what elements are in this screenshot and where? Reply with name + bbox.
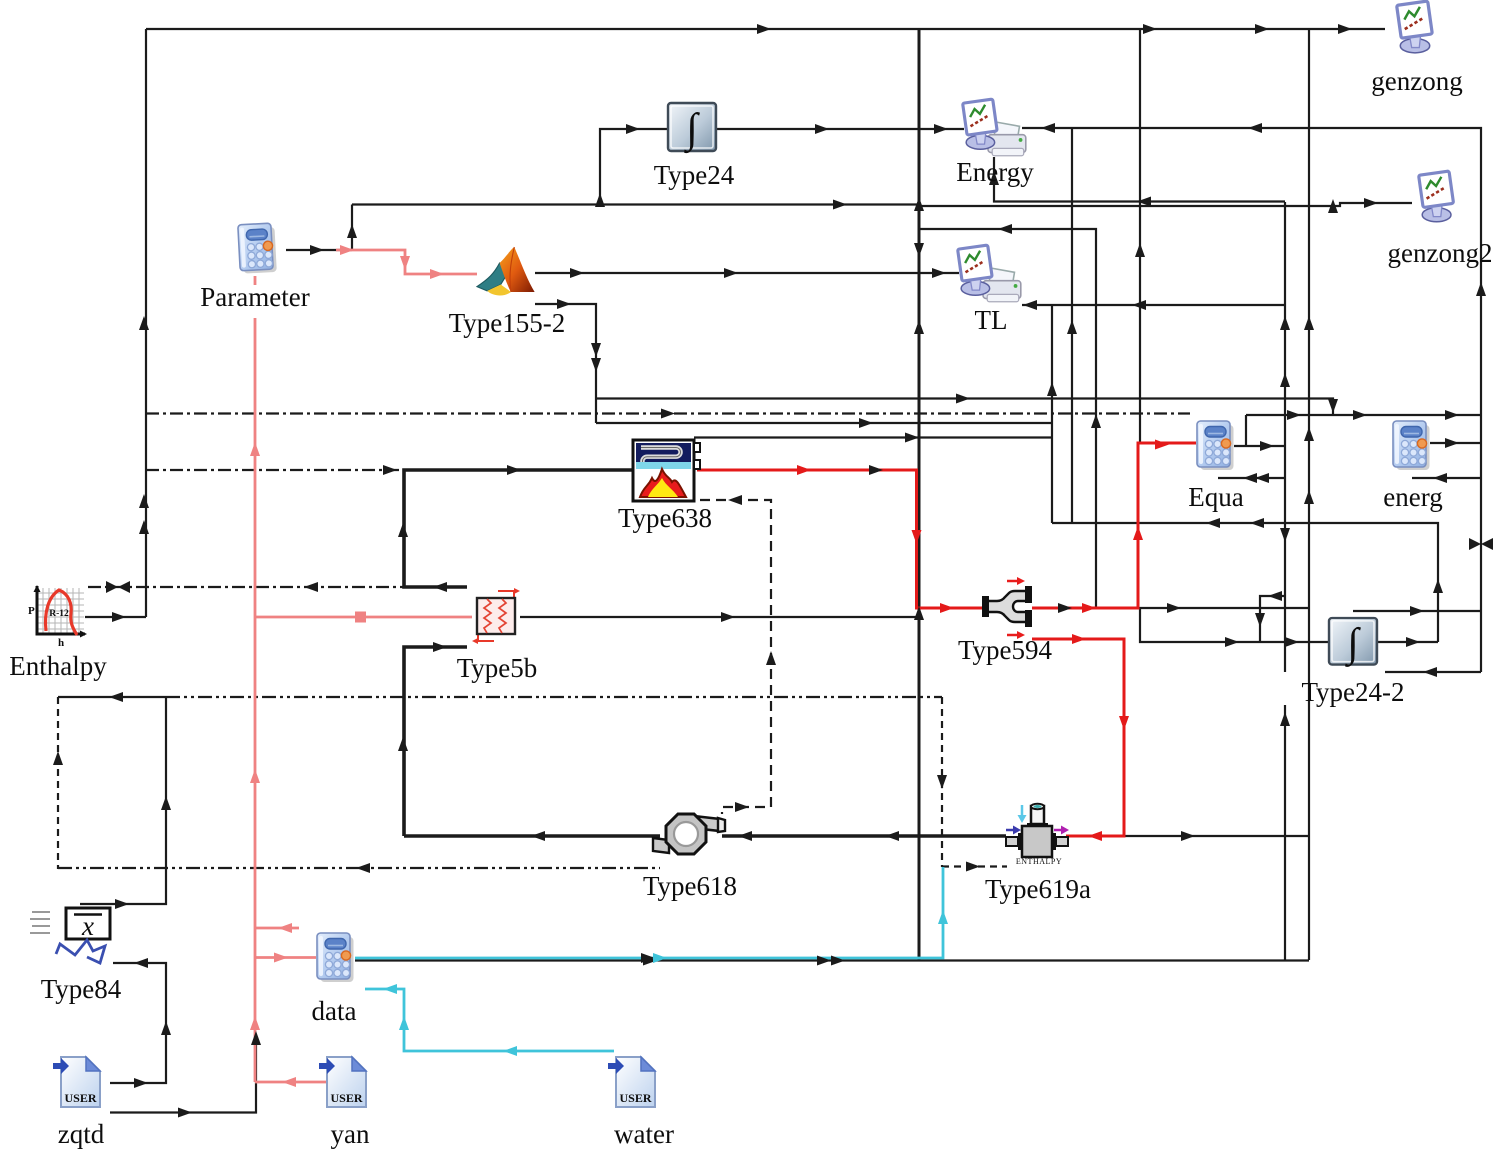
wire left frame vertical: [145, 29, 147, 617]
pump Type618: [653, 814, 725, 854]
wire dashdot y=697: [166, 696, 942, 698]
wire dashdot Enthalpy y=587: [88, 586, 404, 588]
wire vertical x1072: [1071, 128, 1073, 523]
svg-text:Type638: Type638: [618, 503, 712, 533]
wire pink branch to Type5b: [255, 616, 472, 619]
svg-text:Equa: Equa: [1188, 482, 1243, 512]
heat exchanger Type5b: [472, 588, 520, 644]
wire Equa bottom: [1218, 477, 1285, 479]
arrow into Type24: [626, 124, 640, 134]
plotter genzong: [1397, 1, 1433, 53]
wire Parameter output: [286, 249, 352, 251]
svg-text:ENTHALPY: ENTHALPY: [1016, 857, 1062, 866]
wire pink from yan: [255, 1081, 327, 1084]
red arrows Type594 to Equa: [1082, 603, 1096, 613]
arrows Type24 to Energy: [815, 124, 829, 134]
wire energ right output: [1430, 442, 1481, 444]
arrows on top frame: [757, 24, 771, 34]
arrows y398: [956, 394, 970, 404]
wire y=398 long horizontal: [596, 399, 1333, 416]
arrows x166 upper: [161, 796, 171, 810]
arrows y204: [833, 200, 847, 210]
printer-plotter Energy: [963, 99, 1026, 156]
wire thick loop to Type5b bottom: [404, 647, 467, 836]
arrow Type24-2 output: [1406, 637, 1420, 647]
arrows thick loop top: [398, 523, 408, 537]
arrows Equa bottom: [1243, 473, 1257, 483]
wire pink Parameter to Type155-2: [336, 250, 477, 274]
furnace Type638: [633, 440, 700, 501]
wire jog x1260: [1260, 596, 1285, 642]
arrows Type594 output black: [1058, 603, 1072, 613]
wire top frame to genzong: [146, 28, 1385, 30]
wire Type155-2 second output: [535, 304, 596, 423]
wire vertical x1285 upper: [1284, 202, 1286, 672]
tee Type594: [982, 577, 1032, 639]
black arrows on cyan bus: [641, 953, 655, 963]
wire vertical x1309: [1308, 29, 1310, 960]
user file zqtd: [53, 1057, 100, 1107]
wire dashdot into Type638 left: [146, 469, 400, 471]
arrows vertical x1285: [1280, 316, 1290, 330]
arrows pump left thick: [531, 831, 545, 841]
arrow dashed x58: [53, 751, 63, 765]
calculator Equa: [1197, 421, 1234, 470]
wire y=611 to x1481: [1353, 610, 1481, 612]
arrows Type155-2 second output: [557, 299, 571, 309]
svg-text:genzong: genzong: [1371, 66, 1462, 96]
red arrows Type638 line: [797, 465, 811, 475]
cyan arrows data bus: [653, 953, 667, 963]
pink elbow arrows: [278, 923, 292, 933]
svg-text:energ: energ: [1383, 482, 1442, 512]
wire Type638 top output y=437: [694, 436, 1052, 438]
svg-text:genzong2: genzong2: [1388, 238, 1493, 268]
user file yan: [319, 1057, 366, 1107]
arrows into energ: [1287, 410, 1301, 420]
pink arrows Parameter line: [340, 245, 354, 255]
wire zqtd bottom output: [110, 1037, 256, 1113]
arrow dashdot y587: [304, 582, 318, 592]
svg-text:Type5b: Type5b: [457, 653, 538, 683]
wire pump left thick: [404, 834, 660, 838]
wire dashed vertical x942: [941, 697, 943, 867]
wire Parameter output vertical branch: [351, 205, 353, 251]
matlab Type155-2: [477, 247, 535, 295]
wire into Type84 right: [110, 963, 166, 1083]
wire dashdot y=868: [58, 867, 660, 869]
arrows y206 genzong2: [1328, 199, 1338, 213]
wire Energy bottom feed: [994, 157, 1285, 202]
wire bottom bus y=960: [355, 959, 1309, 961]
wire Type594 output black: [1032, 607, 1309, 609]
wire y=423 horizontal: [596, 422, 1052, 424]
wire Type5b output to x919: [520, 616, 917, 618]
wire y=523 horizontal: [1052, 523, 1438, 642]
calculator data: [317, 933, 354, 982]
wire Equa output: [1234, 445, 1285, 447]
arrow dashdot y413: [661, 409, 675, 419]
printer-plotter TL: [958, 245, 1021, 302]
arrows into Type24-2: [1225, 637, 1239, 647]
arrows dashed x942: [937, 775, 947, 789]
svg-text:Type618: Type618: [643, 871, 737, 901]
arrows Energy bottom feed: [989, 171, 999, 185]
arrow energ bottom: [1433, 473, 1447, 483]
wire y=697 solid left: [58, 696, 166, 698]
arrow thick loop bottom: [398, 737, 408, 751]
wire Type24 to Energy: [716, 128, 964, 130]
averager Type84: [30, 908, 110, 963]
wire red Type594 bottom to Type619a: [1032, 639, 1124, 836]
wire horizontal y=206: [920, 203, 1412, 206]
arrows bottom bus y960: [643, 956, 657, 966]
arrow vertical x1140: [1135, 243, 1145, 257]
arrows Type84 loop: [134, 958, 148, 968]
pink square marker on Type5b branch: [355, 612, 366, 623]
arrow Equa output: [1260, 441, 1274, 451]
wire horizontal y=229 into vertical x1096: [920, 229, 1096, 608]
calculator energ: [1393, 421, 1430, 470]
svg-text:Type24: Type24: [654, 160, 735, 190]
wire dashed Type638 bottom to pump: [700, 500, 771, 814]
arrows Type155-2 to TL: [570, 268, 584, 278]
arrow Type638 top output: [905, 433, 919, 443]
arrow y423: [859, 418, 873, 428]
wire horizontal y=204 to node x919: [352, 203, 919, 205]
integrator Type24: [668, 103, 716, 154]
wire vertical x1140: [1139, 29, 1141, 443]
wire dashed vertical x58: [57, 697, 59, 869]
svg-text:h: h: [58, 637, 64, 649]
arrows vertical x1309: [1304, 316, 1314, 330]
arrows jog x1260: [1268, 591, 1282, 601]
svg-text:yan: yan: [331, 1119, 370, 1149]
arrows on left frame vertical: [139, 316, 149, 330]
wire Type619a right to x1309: [1066, 835, 1309, 837]
wire pump right thick: [722, 834, 1006, 838]
tee valve Type619a: [1006, 804, 1069, 866]
integrator Type24-2: [1329, 618, 1377, 668]
wire vertical x166 upper: [80, 697, 166, 904]
wire Equa out to energ branch vertical: [1245, 415, 1247, 446]
cyan arrows water loop: [383, 984, 397, 994]
arrows zqtd bottom: [178, 1108, 192, 1118]
arrow energ right output: [1445, 438, 1459, 448]
pink arrows main vertical: [250, 442, 260, 456]
svg-text:Parameter: Parameter: [200, 282, 309, 312]
bowtie Enthalpy dashdot: [106, 581, 130, 593]
svg-text:water: water: [614, 1119, 674, 1149]
arrow red line black overlay: [869, 465, 883, 475]
svg-text:data: data: [312, 996, 357, 1026]
arrow y697 left: [109, 692, 123, 702]
svg-text:Enthalpy: Enthalpy: [9, 651, 107, 681]
wire dashdot y=413 long: [146, 412, 1190, 414]
arrows trunk x919: [914, 243, 924, 257]
wire TL right feed y=305: [1022, 304, 1285, 306]
wire dashed into Type619a bottom: [942, 865, 1007, 867]
wire Type24-2 output: [1377, 641, 1438, 643]
svg-text:Type155-2: Type155-2: [449, 308, 566, 338]
arrow Parameter out: [310, 245, 324, 255]
wire vertical x1285 lower: [1284, 705, 1286, 960]
wire into Type24: [600, 129, 668, 204]
arrow dashdot into Type638: [383, 465, 397, 475]
wire into Type24-2: [1140, 608, 1329, 642]
wire into energ y=415: [1246, 414, 1481, 416]
wire red Type638 output: [697, 470, 982, 608]
svg-text:zqtd: zqtd: [58, 1119, 105, 1149]
arrows y229 x1096: [998, 224, 1012, 234]
arrows y523: [1206, 518, 1220, 528]
calculator Parameter: [238, 223, 277, 274]
wire cyan water to data: [365, 989, 614, 1051]
red arrows Type594 bottom path: [1072, 634, 1086, 644]
wire red Type594 out to Equa: [1032, 443, 1196, 608]
user file water: [608, 1057, 655, 1107]
svg-text:Type84: Type84: [41, 974, 122, 1004]
wire pink into data: [255, 956, 316, 959]
svg-text:Type619a: Type619a: [985, 874, 1091, 904]
arrow dashdot y868: [356, 863, 370, 873]
arrow vertical x1072: [1067, 320, 1077, 334]
svg-text:Type594: Type594: [958, 635, 1053, 665]
wire Energy right feed from x1481: [1022, 128, 1481, 672]
wire pink main vertical: [254, 318, 257, 1082]
arrow y611: [1410, 606, 1424, 616]
wire energ bottom: [1412, 477, 1481, 479]
arrows Type5b output: [721, 612, 735, 622]
wire pink branch y=928: [255, 927, 299, 930]
arrow below Type24-2: [1423, 667, 1437, 677]
bowtie x1481: [1469, 538, 1493, 550]
wire cyan data to Type619a: [355, 867, 943, 958]
wire pink Parameter stub: [254, 276, 257, 285]
svg-text:P: P: [28, 605, 35, 617]
arrow Type619a right: [1181, 831, 1195, 841]
arrows TL right feed: [1023, 300, 1037, 310]
wire vertical x919 trunk: [918, 29, 921, 960]
arrows pump right thick: [738, 831, 752, 841]
wire Type155-2 to TL: [535, 272, 959, 274]
arrow vertical x1052: [1047, 382, 1057, 396]
enthalpy chart: [28, 585, 87, 649]
svg-text:Type24-2: Type24-2: [1301, 677, 1404, 707]
svg-text:R-12: R-12: [49, 609, 69, 619]
wire Enthalpy output to left frame: [85, 616, 146, 618]
plotter genzong2: [1419, 171, 1454, 222]
arrow Enthalpy out: [112, 612, 126, 622]
wire below Type24-2 to x1481: [1385, 671, 1481, 673]
svg-text:TL: TL: [975, 305, 1008, 335]
wire thick loop Type5b top to Type638: [404, 470, 633, 587]
arrows dashed Type638-pump loop: [728, 495, 742, 505]
svg-text:Energy: Energy: [956, 157, 1034, 187]
arrows Energy right feed: [1041, 123, 1055, 133]
svg-text:x: x: [81, 911, 94, 941]
wire vertical x1052: [1051, 305, 1053, 523]
